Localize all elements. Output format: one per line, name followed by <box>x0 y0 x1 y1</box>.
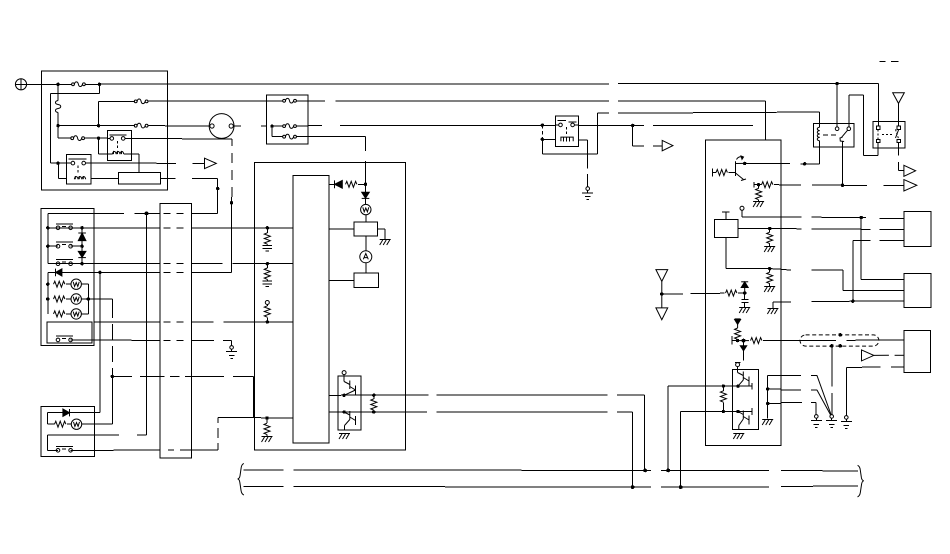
wire <box>218 417 293 419</box>
connector arrow <box>662 140 673 150</box>
node junction <box>56 161 59 164</box>
wire to arrow <box>633 125 663 146</box>
lamp L2 <box>71 294 81 304</box>
collector bar <box>751 383 753 390</box>
wire to main unit <box>308 137 366 185</box>
resistor R13 <box>716 170 727 176</box>
wire <box>329 411 406 413</box>
wire switch row 4 <box>94 340 231 345</box>
wire relay K4 coil return <box>819 141 821 164</box>
bus wire 2 <box>244 486 858 487</box>
diode D1 <box>78 228 86 246</box>
node junction <box>768 227 771 230</box>
transistor Q5 <box>738 411 749 430</box>
wire relay K4 output <box>842 142 844 186</box>
wire <box>71 449 218 451</box>
wire <box>861 218 904 280</box>
indicator lamp L4 <box>361 204 371 214</box>
wire <box>58 83 64 85</box>
node junction <box>757 183 760 186</box>
pin P2 <box>342 371 346 382</box>
wire <box>836 84 838 127</box>
wire sensor row 2 <box>48 263 293 265</box>
node junction <box>265 416 268 419</box>
wire to connector 1 pin 3 <box>853 239 904 241</box>
wire <box>217 418 219 451</box>
node junction <box>46 283 49 286</box>
fuse box 2 <box>266 95 308 144</box>
lamp L3 <box>71 309 81 319</box>
block R6 <box>354 222 378 236</box>
node junction <box>145 212 149 216</box>
resistor R4 <box>55 421 66 427</box>
selector contact 2 <box>817 390 831 415</box>
power transistor sub box <box>732 369 758 429</box>
selector contact 1 <box>817 375 831 414</box>
relay K3 <box>555 116 578 147</box>
resistor R21 <box>751 338 762 344</box>
wire <box>378 229 386 240</box>
resistor R3 <box>54 311 65 317</box>
node junction <box>830 344 834 348</box>
node junction <box>342 410 345 413</box>
wire B <box>308 101 765 140</box>
wire <box>88 299 112 424</box>
capacitor C3 <box>741 293 748 308</box>
node junction <box>98 271 101 274</box>
ground <box>764 287 775 293</box>
transistor Q4 <box>738 372 749 387</box>
wire sensor row 1 <box>48 227 293 229</box>
node junction <box>766 402 769 405</box>
node junction <box>736 410 739 413</box>
ground <box>753 202 764 208</box>
wire <box>47 413 49 425</box>
dash mark <box>880 61 886 63</box>
connector bus rectangle <box>160 203 192 458</box>
wire <box>329 394 406 396</box>
antenna connector 1 <box>656 270 668 294</box>
pin P5 <box>735 362 741 372</box>
ground <box>226 346 237 359</box>
node junction <box>216 187 219 190</box>
diode D6 <box>48 409 100 416</box>
wire relay K2 switch to arrow <box>91 162 205 164</box>
antenna <box>893 93 905 126</box>
node junction <box>722 384 725 387</box>
node junction <box>541 124 544 127</box>
node junction <box>736 339 739 342</box>
node junction <box>372 394 375 397</box>
amplifier arrow <box>862 350 904 361</box>
node junction <box>736 384 739 387</box>
wire <box>738 227 781 229</box>
node junction <box>660 292 663 295</box>
lamp L6 <box>71 419 81 429</box>
diode D5 <box>48 269 94 277</box>
wire <box>58 163 66 178</box>
wire amp to relay coil <box>745 162 820 164</box>
wire relay K2 coil to resistor block <box>91 177 119 179</box>
wire relay link <box>849 95 878 156</box>
relay K2 <box>66 154 90 184</box>
wire <box>160 178 217 213</box>
wire <box>846 367 904 415</box>
wire parking lamp feed <box>94 271 232 273</box>
cable brace left <box>238 463 244 495</box>
wire <box>753 182 755 188</box>
shielded cable <box>800 335 879 346</box>
connector C3 <box>904 331 931 373</box>
diode D7 <box>741 282 748 293</box>
node junction <box>631 124 634 127</box>
wire <box>233 125 266 127</box>
resistor R15 <box>756 188 762 199</box>
circuit breaker <box>55 84 60 125</box>
wire <box>99 137 108 139</box>
block R16 <box>714 220 738 238</box>
wire <box>98 101 100 125</box>
dash mark <box>891 61 898 63</box>
resistor R22 <box>720 391 726 402</box>
node junction <box>851 300 854 303</box>
wire relay K1 switch output <box>132 137 232 140</box>
ground <box>841 416 852 429</box>
wire lamp check output <box>774 184 904 187</box>
fuse/relay box (top left) <box>42 71 168 190</box>
wire <box>99 138 113 154</box>
lamp switch box (left) <box>41 209 94 346</box>
wire <box>82 423 113 425</box>
wire blower output 2 <box>406 412 633 487</box>
collector bar <box>751 408 753 415</box>
wire feed to lamp switches <box>48 213 218 215</box>
node junction <box>46 297 49 300</box>
switch S4 <box>56 336 73 342</box>
wire <box>57 126 59 139</box>
node junction <box>643 469 647 473</box>
node junction <box>266 262 269 265</box>
node junction <box>631 485 635 489</box>
wire <box>112 376 253 417</box>
wire motor branch vertical <box>231 139 233 272</box>
node junction <box>80 226 83 229</box>
wire <box>58 125 99 127</box>
node junction <box>56 124 59 127</box>
wire <box>712 411 738 413</box>
fuse F6 <box>283 124 297 129</box>
transistor sub box <box>338 376 361 430</box>
node junction <box>838 333 842 337</box>
switch S3 <box>56 260 73 266</box>
wire lamp common <box>87 284 89 314</box>
wire <box>58 162 66 164</box>
resistor block R0 <box>118 172 160 184</box>
wire to connector 1 pin 1 <box>781 217 904 219</box>
node junction <box>80 245 83 248</box>
node junction <box>266 226 269 229</box>
ground <box>739 308 750 314</box>
resistor R9 <box>264 268 270 279</box>
connector C1 <box>904 212 931 247</box>
relay K4 <box>814 123 855 147</box>
node junction <box>270 124 273 127</box>
wire <box>99 272 101 412</box>
connector arrow <box>205 158 217 168</box>
resistor R17 <box>767 232 773 243</box>
resistor R2 <box>54 296 65 302</box>
wire <box>47 214 49 264</box>
wire C <box>598 112 820 123</box>
fuse F2 <box>134 99 148 104</box>
resistor R1 <box>54 281 65 287</box>
resistor R19 <box>726 290 737 296</box>
switch S2 <box>56 242 73 248</box>
wire <box>878 84 880 126</box>
battery B1 <box>15 79 26 90</box>
node junction <box>56 83 59 86</box>
main control unit box <box>255 163 406 451</box>
node junction <box>722 410 725 413</box>
inner connector bar <box>293 175 329 443</box>
node junction <box>80 262 83 265</box>
node junction <box>838 344 842 348</box>
lamp L1 <box>71 279 81 289</box>
indicator lamp L5 <box>360 251 372 263</box>
cable brace right <box>858 465 864 497</box>
wire A battery feed <box>99 83 609 85</box>
transistor Q3 <box>729 156 747 181</box>
wire battery to fuse box <box>27 83 58 85</box>
wire amp outputs <box>768 375 781 418</box>
wire <box>329 279 354 281</box>
wire tachometer signal <box>763 339 904 342</box>
resistor R10 <box>264 306 270 317</box>
node junction <box>87 297 90 300</box>
pin P3 <box>740 206 781 217</box>
wire D continued <box>579 124 753 126</box>
wire speaker line 2 <box>781 389 817 391</box>
wire <box>712 385 738 387</box>
node junction <box>768 267 771 270</box>
tail lamp box (bottom left) <box>41 407 95 457</box>
wire <box>365 263 367 273</box>
diode D9 <box>738 341 749 361</box>
wire <box>47 435 49 450</box>
wire <box>852 241 854 302</box>
bus wire 1 <box>244 469 858 472</box>
node junction <box>743 291 746 294</box>
node junction <box>742 339 746 343</box>
wire <box>99 100 135 102</box>
capacitor C1 <box>263 246 273 251</box>
wire jog <box>781 270 904 291</box>
wire riser to amp 2 <box>681 411 752 487</box>
switch S1 <box>56 224 73 230</box>
resistor R12 <box>371 399 377 410</box>
ground <box>826 415 837 428</box>
node junction <box>46 245 49 248</box>
fuse F5 <box>283 98 297 103</box>
node junction <box>111 375 114 378</box>
wire <box>329 228 354 230</box>
wire relay K1 coil output <box>124 154 139 172</box>
wire <box>365 236 367 251</box>
pin P4 <box>722 212 730 220</box>
node junction <box>666 469 670 473</box>
wire blower output 1 <box>406 395 645 471</box>
node junction <box>46 226 49 229</box>
wire <box>271 126 273 137</box>
pin P1 <box>265 301 269 305</box>
fuse F7 <box>283 134 297 139</box>
wire to connector 1 pin 2 <box>781 228 904 231</box>
node junction <box>835 82 838 85</box>
ground <box>811 415 822 428</box>
ground <box>339 434 350 440</box>
node junction <box>766 387 769 390</box>
wire A continued <box>618 83 879 85</box>
antenna connector 2 <box>656 294 668 320</box>
node junction <box>97 137 100 140</box>
fuse F3 <box>134 123 148 128</box>
node junction <box>803 162 806 165</box>
node junction <box>342 394 345 397</box>
fuse F1 <box>72 82 86 87</box>
resistor R8 <box>264 233 270 244</box>
ground <box>380 240 391 246</box>
wire C feed loop <box>542 113 597 154</box>
diode D8 <box>735 319 741 328</box>
wire <box>781 301 904 302</box>
wire <box>726 238 781 269</box>
wire lamp feed <box>47 272 49 314</box>
diode D4 <box>362 184 370 204</box>
connector arrow <box>904 180 917 191</box>
resistor R18 <box>767 272 773 283</box>
wire <box>773 302 781 309</box>
node junction <box>841 184 844 187</box>
wire speaker line 3 <box>781 403 816 415</box>
node junction <box>266 320 269 323</box>
wire D <box>308 124 555 126</box>
node junction <box>679 485 683 489</box>
wire relay K3 coil feed <box>542 125 555 139</box>
transistor Q1 <box>344 381 355 396</box>
ground <box>733 434 744 440</box>
wire <box>731 336 733 345</box>
connector arrow <box>904 165 916 176</box>
block R7 <box>354 273 378 287</box>
resistor R5 <box>346 181 357 187</box>
resistor R14 <box>762 182 773 188</box>
wire <box>819 123 821 127</box>
wire sensor row 3 <box>94 321 293 323</box>
diode D2 <box>78 246 86 264</box>
amplifier unit box <box>706 140 782 445</box>
node junction <box>541 138 544 141</box>
ground <box>762 420 773 426</box>
node junction <box>372 410 375 413</box>
node junction <box>230 201 233 204</box>
wire riser to amp 1 <box>668 386 752 471</box>
node junction <box>98 83 101 86</box>
node junction <box>97 124 100 127</box>
switch S5 <box>56 446 73 452</box>
motor M1 <box>209 114 234 139</box>
ground <box>582 187 593 200</box>
switch sub box <box>47 322 92 343</box>
node junction <box>743 162 746 165</box>
wire <box>99 125 135 127</box>
wire <box>899 143 904 171</box>
wire <box>662 292 725 295</box>
wire relay K3 coil to ground <box>579 140 588 187</box>
wire shield drain <box>831 346 833 415</box>
capacitor C2 <box>263 281 273 286</box>
wire <box>58 137 65 139</box>
ground <box>764 247 775 253</box>
wire speaker line 1 <box>781 374 817 376</box>
wire <box>48 434 147 436</box>
resistor R20 <box>735 328 741 339</box>
connector C2 <box>904 274 931 308</box>
diode D3 <box>329 180 342 188</box>
node junction <box>364 183 367 186</box>
ground <box>262 437 273 443</box>
resistor R11 <box>264 423 270 434</box>
wire <box>365 215 367 222</box>
node junction <box>860 216 863 219</box>
fuse F4 <box>71 136 85 141</box>
wire <box>50 84 99 163</box>
relay K5 <box>873 122 905 149</box>
wire bus feed vertical <box>146 213 148 434</box>
relay K1 <box>108 130 132 160</box>
transistor Q2 <box>344 411 355 430</box>
ground <box>767 309 778 315</box>
